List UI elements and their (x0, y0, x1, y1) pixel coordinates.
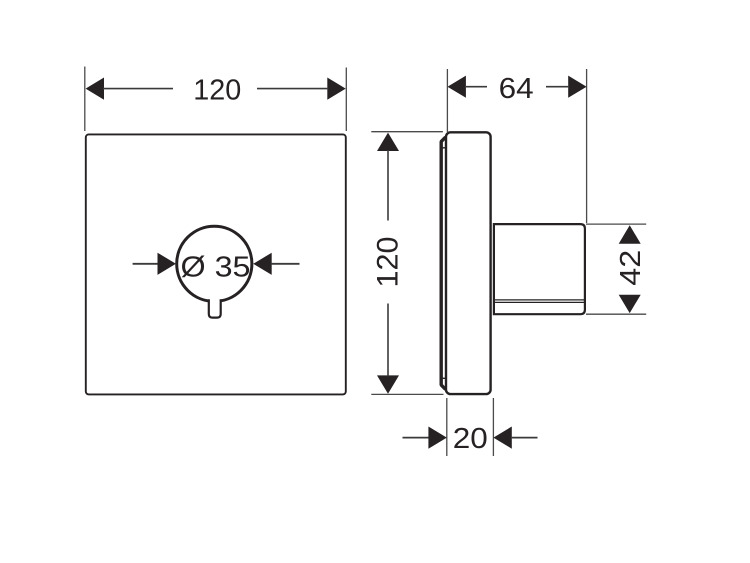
svg-text:20: 20 (453, 423, 488, 455)
dim 120 side: bottom extension line (371, 393, 443, 395)
dim 42: top extension line (586, 223, 646, 225)
dim 64: dimension line left segment (465, 86, 487, 88)
side view: handle knob outline (494, 224, 585, 314)
dim 42: bottom arrowhead (619, 295, 641, 313)
dim 64: dimension line right segment (546, 86, 569, 88)
front view: handle hole circle (177, 226, 252, 301)
dim diameter 35: left arrowhead (158, 253, 176, 275)
dim 20: left arrowhead (428, 427, 446, 449)
front view: index tab at circle bottom (209, 299, 221, 317)
svg-text:120: 120 (372, 237, 405, 288)
dim 120 side: top arrowhead (377, 133, 399, 151)
dim diameter 35: right arrowhead (253, 253, 271, 275)
dim 42: top arrowhead (619, 225, 641, 243)
side view: flange bottom tick (440, 377, 446, 379)
dim 120 top: dimension line left segment (103, 88, 173, 90)
side view: plate back flange sliver (solid band with chamfered ends) (441, 137, 445, 389)
dim diameter 35: left leader line (133, 263, 159, 265)
dim 120 side: bottom arrowhead (377, 375, 399, 393)
dim 64: left arrowhead (448, 76, 466, 98)
dim 42: bottom extension line (586, 313, 646, 315)
dim 64: left extension line (446, 69, 448, 132)
dim 64: right arrowhead (568, 76, 586, 98)
dim 20: left leader line (403, 437, 430, 439)
dim 120 side: dimension line upper segment (387, 150, 389, 221)
side view: plate body outline (446, 132, 491, 394)
dim 20: left extension line (446, 398, 448, 456)
svg-text:64: 64 (499, 73, 534, 105)
dim 120 side: top extension line (371, 131, 443, 133)
dim 120 top: right arrowhead (327, 78, 345, 100)
svg-text:Ø 35: Ø 35 (181, 251, 251, 283)
svg-text:42: 42 (615, 250, 647, 286)
dim 120 top: left extension line (84, 67, 86, 132)
dim 20: right arrowhead (493, 427, 511, 449)
dim 20: right leader line (511, 437, 538, 439)
side view: knob ring detail upper line (495, 299, 585, 301)
side view: knob ring detail lower line (495, 301, 585, 303)
dim 120 top: dimension line right segment (257, 88, 328, 90)
dim 120 top: right extension line (345, 68, 347, 132)
dim 64: right extension line (586, 69, 588, 223)
side view: flange top tick (440, 147, 446, 149)
dim 120 top: left arrowhead (86, 78, 104, 100)
front view: escutcheon square plate outline (86, 134, 346, 394)
svg-text:120: 120 (193, 74, 241, 106)
dim diameter 35: right leader line (271, 263, 300, 265)
dim 20: right extension line (492, 398, 494, 456)
dim 120 side: dimension line lower segment (387, 304, 389, 377)
